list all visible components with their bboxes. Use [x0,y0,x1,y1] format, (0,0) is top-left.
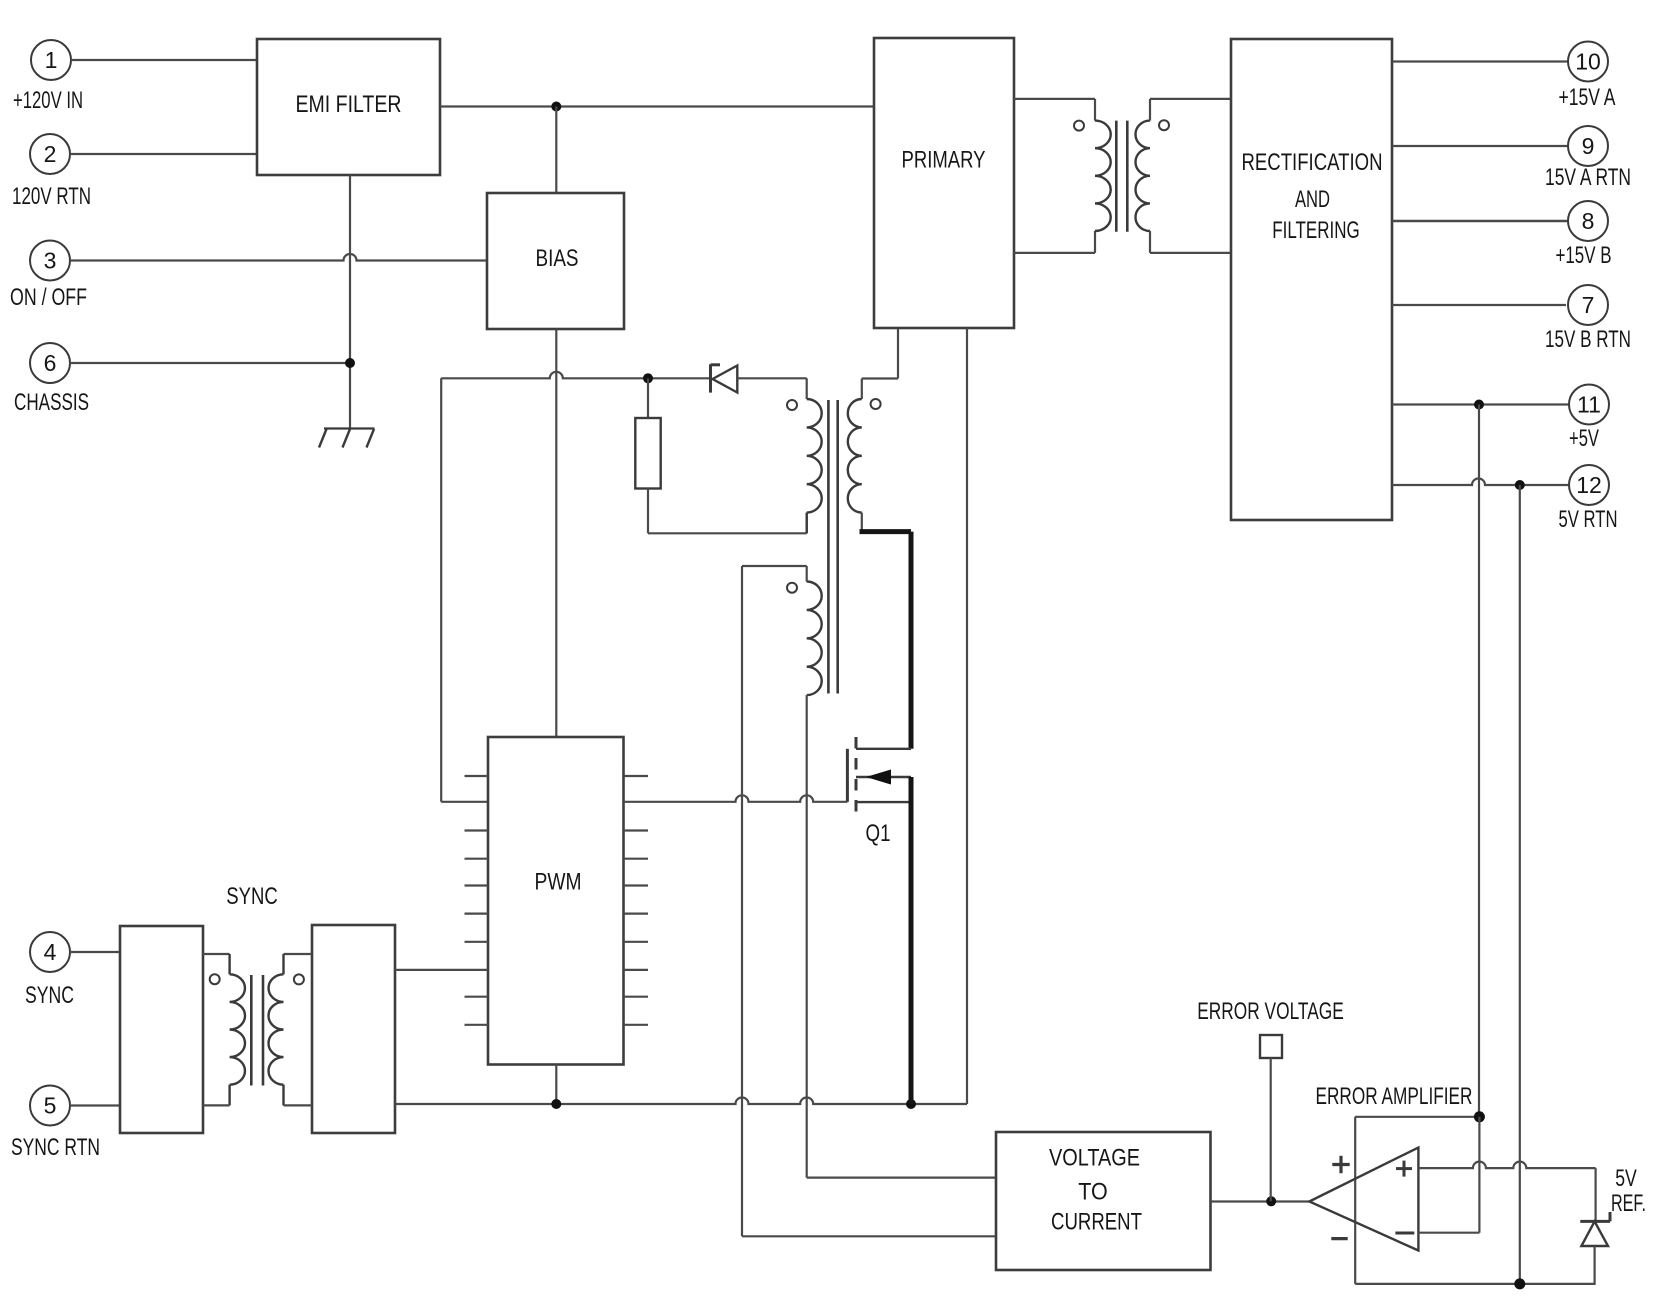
svg-text:ERROR AMPLIFIER: ERROR AMPLIFIER [1316,1083,1473,1110]
wire 15V A RTN [1392,145,1568,147]
wire T3 secondary bottom to rectifier [1150,231,1231,253]
sync transformer primary winding [203,954,245,1105]
svg-text:5: 5 [44,1093,57,1119]
block PRIMARY [874,38,1014,328]
transformer T3 secondary winding [1136,121,1151,231]
transformer T1 primary winding [807,399,822,533]
svg-text:+5V: +5V [1569,425,1599,452]
connector pin 9 [1568,126,1608,166]
svg-text:EMI FILTER: EMI FILTER [296,91,402,118]
block EMI FILTER [257,39,440,175]
node 5V RTN junction [1515,480,1525,490]
svg-text:+15V A: +15V A [1559,84,1616,111]
svg-text:+15V B: +15V B [1556,242,1612,269]
node error voltage junction [1266,1196,1276,1206]
label 5V RTN [1559,506,1618,533]
wire +15V A [1392,60,1568,62]
op-amp outer minus [1331,1237,1347,1240]
wire T3 secondary top to rectifier [1150,99,1231,121]
label 15V B RTN [1545,326,1631,353]
node +5V junction [1474,400,1484,410]
connector pin 11 [1569,385,1609,425]
op-amp inner plus [1396,1161,1412,1177]
transformer T1 core [828,400,837,694]
wire pin3 to BIAS [70,254,487,261]
ground chassis symbol [319,429,375,448]
svg-text:15V B RTN: 15V B RTN [1545,326,1631,353]
wire EMI bottom to chassis ground [349,175,351,429]
label SYNC RTN [11,1134,100,1161]
label 5V REF [1611,1165,1646,1217]
wire +5V [1392,403,1569,405]
wire PWM gate drive [624,795,848,801]
wire resistor to winding bottom [648,489,807,534]
label 120V RTN [12,183,91,210]
svg-text:6: 6 [44,350,57,376]
svg-text:12: 12 [1576,472,1602,498]
svg-text:BIAS: BIAS [536,245,579,272]
wire T2 bottom lead to V-to-I [807,695,996,1178]
svg-text:CHASSIS: CHASSIS [14,389,89,416]
svg-text:11: 11 [1577,392,1601,418]
svg-text:SYNC RTN: SYNC RTN [11,1134,100,1161]
wire 5V RTN [1392,479,1569,486]
svg-text:5V RTN: 5V RTN [1559,506,1618,533]
phase dot T3 primary [1074,121,1084,131]
wire T2 top lead drop to V-to-I [742,566,996,1236]
block BIAS [487,193,624,329]
svg-text:FILTERING: FILTERING [1272,217,1360,244]
pwm controller U1 [465,737,649,1065]
svg-text:ON / OFF: ON / OFF [10,284,87,311]
connector pin 6 [30,343,350,383]
wire PRIMARY lower to main transformer [1014,231,1095,253]
block VOLTAGE TO CURRENT [996,1132,1211,1270]
label SYNC (transformer) [226,883,278,910]
wire sync block to PWM [395,969,488,971]
connector pin 12 [1569,465,1609,505]
connector pin 7 [1568,285,1608,325]
connector pin 2 [30,134,257,174]
wire 5V RTN drop [1519,485,1521,1284]
resistor R1 [635,418,660,489]
label ON / OFF [10,284,87,311]
op-amp inner minus [1395,1232,1414,1235]
wire common rail [395,1098,967,1105]
node EMI output junction [551,102,561,112]
diode CR1 [711,364,738,392]
svg-text:RECTIFICATION: RECTIFICATION [1242,149,1383,176]
svg-text:120V RTN: 120V RTN [12,183,91,210]
label Q1 [866,820,891,847]
svg-text:15V A RTN: 15V A RTN [1545,164,1631,191]
wire bias feed line [441,372,709,378]
svg-text:1: 1 [45,47,58,73]
wire +15V B [1392,220,1568,223]
wire diode anode to T1 [737,378,806,399]
svg-text:8: 8 [1582,208,1595,234]
wire error voltage drop [1270,1058,1272,1201]
wire T1 secondary bottom to Q1 drain [860,513,912,749]
svg-text:ERROR VOLTAGE: ERROR VOLTAGE [1197,998,1344,1025]
op-amp U2 error amplifier [1309,1148,1418,1251]
connector pin 1 [31,40,257,80]
testpoint error voltage [1260,1035,1282,1058]
phase dot T2 [787,583,797,593]
label CHASSIS [14,389,89,416]
connector pin 4 [30,932,120,972]
svg-text:SYNC: SYNC [25,982,74,1009]
zener diode VR1 5V REF [1580,1212,1610,1284]
wire Q1 source to common [909,777,914,1104]
wire PRIMARY bottom drop [966,328,968,1104]
connector pin 5 [30,1086,120,1126]
svg-text:3: 3 [44,248,57,274]
svg-text:CURRENT: CURRENT [1051,1209,1142,1236]
wire left drop to PWM [441,378,488,802]
node 5V RTN bottom junction [1514,1278,1525,1289]
node Q1 source junction [906,1099,916,1109]
label +120V IN [13,87,83,114]
svg-text:5V: 5V [1615,1165,1637,1192]
node chassis junction [345,358,355,368]
sync transformer secondary winding [268,954,312,1105]
wire PRIMARY right to main transformer [1014,99,1095,121]
sync driver block left [120,926,203,1133]
node minus sense junction [1474,1111,1485,1122]
error amplifier boundary [1355,1117,1595,1284]
phase dot sync primary [210,974,220,984]
svg-text:PRIMARY: PRIMARY [902,147,986,174]
label 15V A RTN [1545,164,1631,191]
label +15V A [1559,84,1616,111]
wire junction down to BIAS top [555,107,557,194]
node bias line junction [643,373,653,383]
wire +5V sense drop [1478,405,1480,1117]
op-amp outer plus [1332,1156,1349,1173]
phase dot T1 secondary [871,399,881,409]
svg-text:4: 4 [44,939,57,965]
wire T2 winding top lead [742,566,807,582]
transformer T3 primary winding [1095,121,1111,231]
wire V-to-I output [1211,1200,1310,1202]
connector pin 3 [30,241,70,281]
svg-text:Q1: Q1 [866,820,891,847]
label +15V B [1556,242,1612,269]
label ERROR AMPLIFIER [1316,1083,1473,1110]
phase dot sync secondary [294,974,304,984]
wire BIAS bottom to PWM top [555,329,557,737]
transformer T2 winding [807,582,822,696]
svg-text:AND: AND [1295,186,1330,213]
phase dot T3 secondary [1159,120,1169,130]
label SYNC (pin 4) [25,982,74,1009]
wire junction to resistor [647,378,649,418]
label ERROR VOLTAGE [1197,998,1344,1025]
wire 15V B RTN [1392,304,1566,306]
sync receiver block right [312,925,395,1133]
transformer T3 core [1116,121,1127,232]
node PWM common junction [551,1099,561,1109]
transformer T1 secondary winding [848,399,862,513]
wire T1 secondary top to PRIMARY [862,328,898,399]
svg-text:TO: TO [1078,1179,1108,1206]
svg-text:10: 10 [1575,49,1601,75]
wire EMI output to PRIMARY [440,105,874,107]
sync transformer core [251,975,263,1086]
svg-text:9: 9 [1582,133,1595,159]
label +5V [1569,425,1599,452]
svg-text:+120V IN: +120V IN [13,87,83,114]
svg-text:VOLTAGE: VOLTAGE [1049,1145,1140,1172]
wire plus input to 5V REF [1418,1162,1595,1220]
connector pin 10 [1568,42,1608,82]
svg-text:PWM: PWM [535,869,582,896]
phase dot T1 primary [787,400,797,410]
wire PWM bottom to common [555,1065,557,1105]
transistor Q1 [847,737,911,817]
wire minus input [1418,1117,1479,1233]
svg-text:REF.: REF. [1611,1190,1646,1217]
svg-text:7: 7 [1582,292,1595,318]
svg-text:SYNC: SYNC [226,883,278,910]
svg-text:2: 2 [44,141,57,167]
block RECTIFICATION AND FILTERING [1231,39,1392,520]
connector pin 8 [1568,201,1608,241]
